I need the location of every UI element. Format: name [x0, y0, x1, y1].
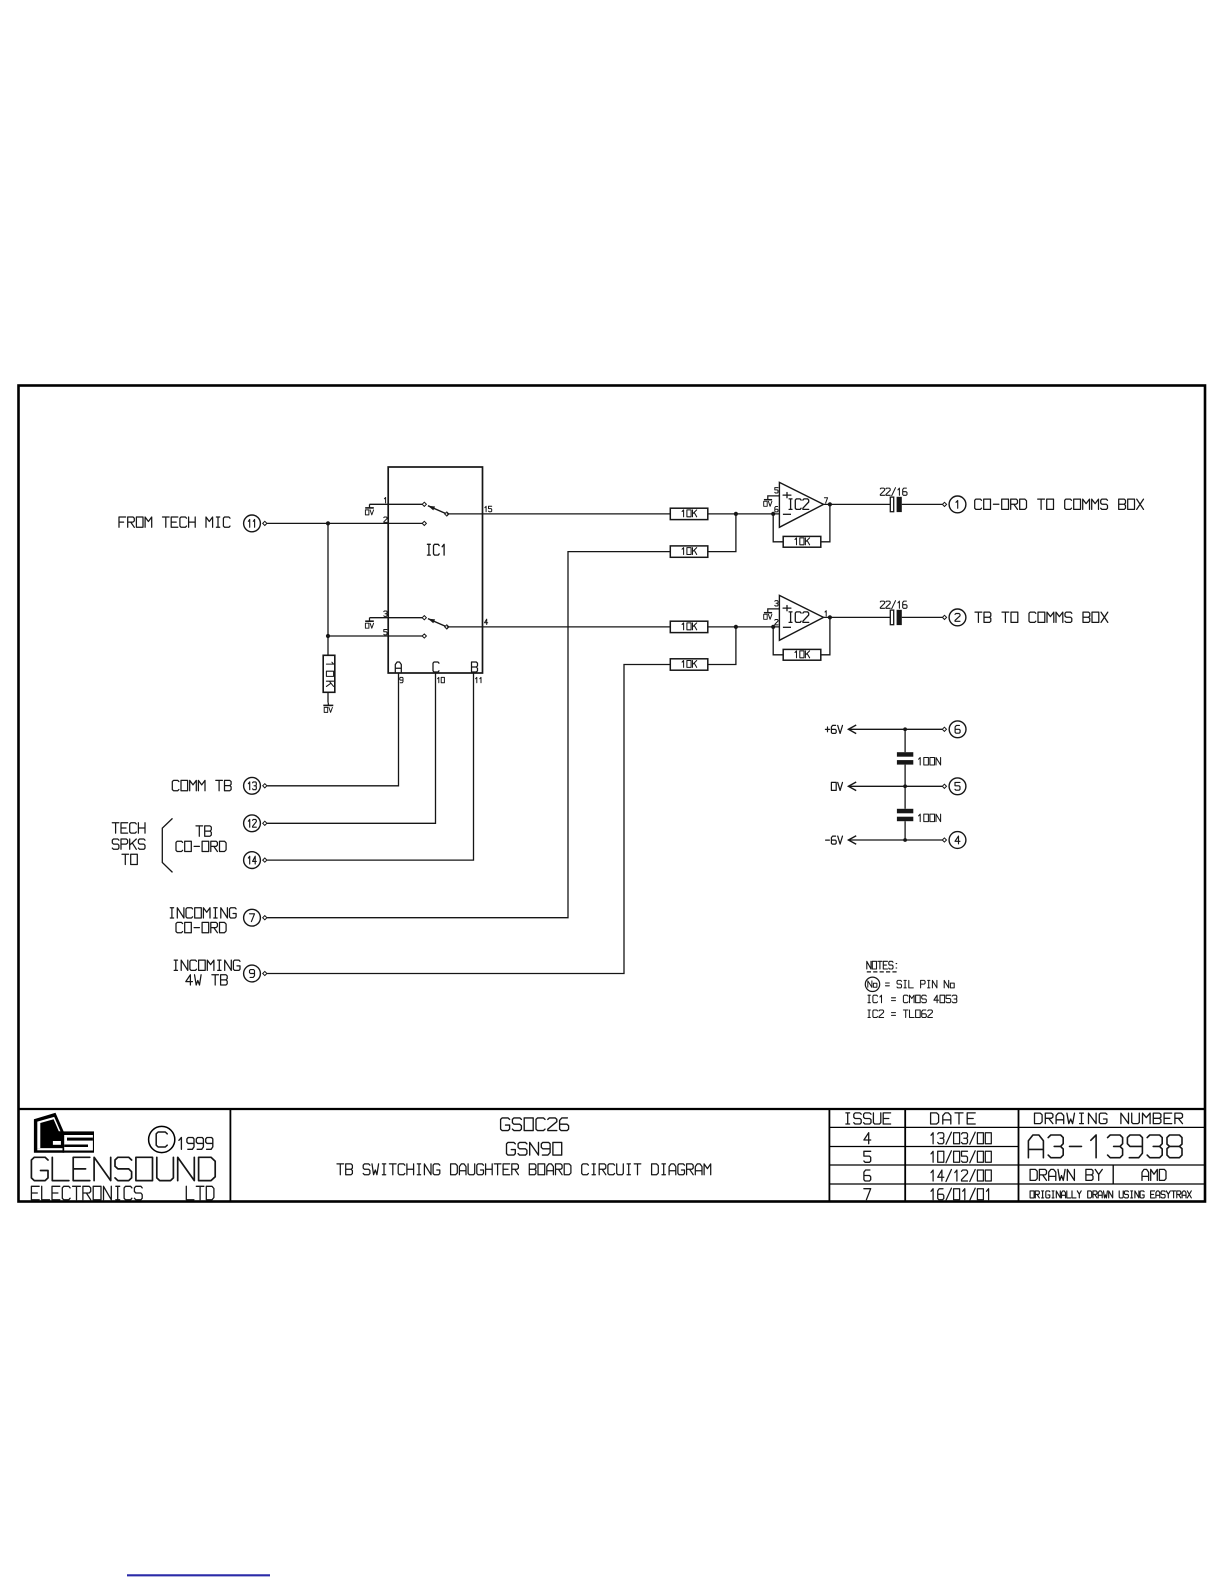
logo Glensound [34, 1113, 94, 1153]
op-amp IC2A minus marker [783, 513, 791, 515]
wire C2 to node 2 [902, 616, 943, 618]
wire R5 to summing junction [708, 627, 736, 665]
node 12 [244, 815, 267, 832]
scan artifact blue line [127, 1574, 270, 1576]
op-amp IC2B plus marker [783, 606, 791, 611]
node 14 [244, 852, 267, 869]
junction -6V [903, 838, 907, 842]
IC1 switch A pivot [445, 512, 449, 516]
node 13 COMM TB [172, 777, 267, 794]
IC1 select label A [395, 662, 401, 672]
issue 7 [864, 1189, 871, 1200]
wire C3 to 0V rail [904, 765, 906, 787]
pin number 2 [384, 517, 387, 522]
wire IC2B non-inverting stub [768, 609, 780, 613]
pin number 1 [384, 498, 385, 503]
pin number 3 [775, 601, 778, 606]
node 4 [942, 832, 966, 849]
IC1 pin 1 wire [370, 503, 425, 505]
ground 0V at IC1 pin 1 [365, 504, 374, 515]
junction inverting input [771, 512, 775, 516]
title GSN90 [507, 1142, 562, 1155]
title GSOC26 [501, 1118, 569, 1131]
wire C1 to node 1 [902, 503, 943, 505]
node 2 TB TO COMMS BOX [942, 609, 1107, 626]
feedback wire IC2B [821, 617, 830, 654]
company name GLENSOUND [31, 1157, 215, 1180]
op-amp IC2B triangle [779, 595, 823, 640]
resistor R1 10K pulldown [323, 636, 335, 703]
capacitor C4 100N [897, 809, 941, 822]
date 16/01/01 [931, 1188, 989, 1200]
IC1 switch A pin 1 terminal [422, 502, 426, 506]
net +6V [825, 725, 942, 734]
junction +6V [903, 727, 907, 731]
op-amp IC2B minus marker [783, 626, 791, 628]
company name ELECTRONICS LTD [31, 1186, 214, 1200]
junction pin 5 row [326, 634, 330, 638]
ground 0V at IC2B non-inverting input [764, 613, 772, 620]
capacitor C1 22/16 [880, 488, 907, 512]
node 7 INCOMING CO-ORD [170, 908, 267, 933]
feedback wire to inverting input [773, 514, 783, 542]
date 14/12/00 [931, 1170, 991, 1182]
header DATE [931, 1113, 976, 1124]
wire node 11 to IC1 pin 2 [267, 522, 424, 524]
pin number 4 [485, 619, 488, 624]
header DRAWING NUMBER [1035, 1113, 1183, 1124]
title TB SWITCHING DAUGHTER BOARD CIRCUIT DIAGRAM [337, 1164, 711, 1175]
wire C4 to -6V rail [904, 821, 906, 840]
issue 4 [864, 1133, 871, 1144]
bracket TECH SPKS TO [162, 818, 172, 872]
node 9 INCOMING 4W TB [174, 960, 267, 985]
copyright 1999 [149, 1126, 213, 1152]
junction inverting input 2 [771, 625, 775, 629]
note IC1 identity [868, 995, 957, 1003]
wire 0V to C4 [904, 786, 906, 809]
note IC2 identity [868, 1010, 932, 1018]
IC1 switch B pin 3 terminal [422, 616, 426, 620]
IC1 switch B pivot [445, 625, 449, 629]
wire node 9 to R5 [267, 665, 670, 974]
wire IC1 pin 11 to node 14 [267, 673, 473, 860]
pin number 11 [476, 677, 481, 682]
ground 0V below R1 [323, 703, 333, 713]
wire bus down to pin 5 row [327, 523, 329, 636]
label TECH SPKS TO [112, 823, 145, 865]
date 10/05/00 [931, 1151, 991, 1163]
op-amp IC2B label [789, 612, 809, 623]
feedback wire IC2A [821, 504, 830, 541]
pin number 9 [400, 677, 403, 682]
pin number 6 [775, 507, 778, 512]
wire IC2B output [824, 616, 891, 618]
IC1 select label C [433, 662, 439, 672]
label DRAWN BY [1030, 1169, 1102, 1180]
IC1 switch A pin 2 terminal [422, 521, 426, 525]
IC1 switch A lever [428, 506, 447, 514]
wire IC1 pin 10 to node 12 [267, 673, 435, 823]
pin number 1 [825, 611, 826, 616]
capacitor C3 100N [897, 752, 941, 765]
header ISSUE [846, 1113, 891, 1124]
note ORIGINALLY DRAWN USING EASYTRAX [1030, 1191, 1191, 1198]
net -6V [826, 836, 943, 845]
pin number 7 [824, 498, 827, 503]
node 5 [942, 778, 966, 795]
pin number 10 [438, 677, 445, 682]
node 6 [942, 721, 966, 738]
notes title [867, 961, 899, 972]
pin number 5 [775, 488, 778, 493]
pin number 3 [384, 611, 387, 616]
pin number 5 [384, 630, 387, 635]
ground 0V at IC1 pin 3 [365, 618, 374, 629]
resistor R2 10K [670, 508, 708, 519]
junction tech mic bus [326, 521, 330, 525]
wire R3 to summing junction [708, 514, 736, 552]
resistor R3 10K [670, 546, 708, 557]
op-amp IC2A plus marker [783, 493, 791, 498]
net 0V [831, 782, 942, 791]
note SIL pin symbol [865, 977, 954, 991]
IC1 label [427, 544, 444, 555]
resistor R7 10K feedback [783, 649, 821, 660]
junction IC2A output [828, 502, 832, 506]
issue 6 [864, 1170, 871, 1181]
wire +6V to C3 [904, 729, 906, 752]
wire IC1 pin 15 to R2 [447, 513, 671, 515]
wire node 7 to R3 [267, 552, 670, 918]
pin number 2 [775, 620, 778, 625]
op-amp IC2A triangle [779, 482, 823, 527]
wire IC2A output [824, 503, 891, 505]
wire IC2A non-inverting stub [768, 496, 780, 500]
wire IC1 pin 4 to R4 [447, 626, 671, 628]
IC1 switch B lever [428, 619, 447, 627]
ground 0V at IC2A non-inverting input [764, 500, 772, 507]
op-amp IC2A label [789, 499, 809, 510]
junction R4 R5 [734, 625, 738, 629]
feedback wire to inverting input 2 [773, 627, 783, 655]
node 11 FROM TECH MIC [119, 515, 267, 532]
IC1 pin 3 wire [370, 617, 425, 619]
resistor R4 10K [670, 621, 708, 632]
IC1 switch B pin 5 terminal [422, 634, 426, 638]
node 1 CO-ORD TO COMMS BOX [942, 496, 1143, 513]
date 13/03/00 [931, 1132, 991, 1144]
drawn by AMD [1142, 1169, 1166, 1180]
wire pin 5 row to IC1 pin 5 [328, 635, 424, 637]
IC1 box CMOS 4053 [388, 467, 482, 673]
drawing number A3-13938 [1028, 1135, 1182, 1158]
junction 0V [903, 784, 907, 788]
IC1 select label B [472, 662, 478, 672]
junction R2 R3 [734, 512, 738, 516]
resistor R6 10K feedback [783, 536, 821, 547]
label TB CO-ORD [176, 826, 226, 852]
issue 5 [864, 1151, 871, 1162]
wire R4 to IC2 inverting input [708, 626, 780, 628]
wire R2 to IC2 inverting input [708, 513, 780, 515]
pin number 15 [485, 506, 492, 511]
capacitor C2 22/16 [880, 601, 907, 625]
junction IC2B output [828, 615, 832, 619]
resistor R5 10K [670, 659, 708, 670]
wire IC1 pin 9 to node 13 [267, 673, 398, 786]
